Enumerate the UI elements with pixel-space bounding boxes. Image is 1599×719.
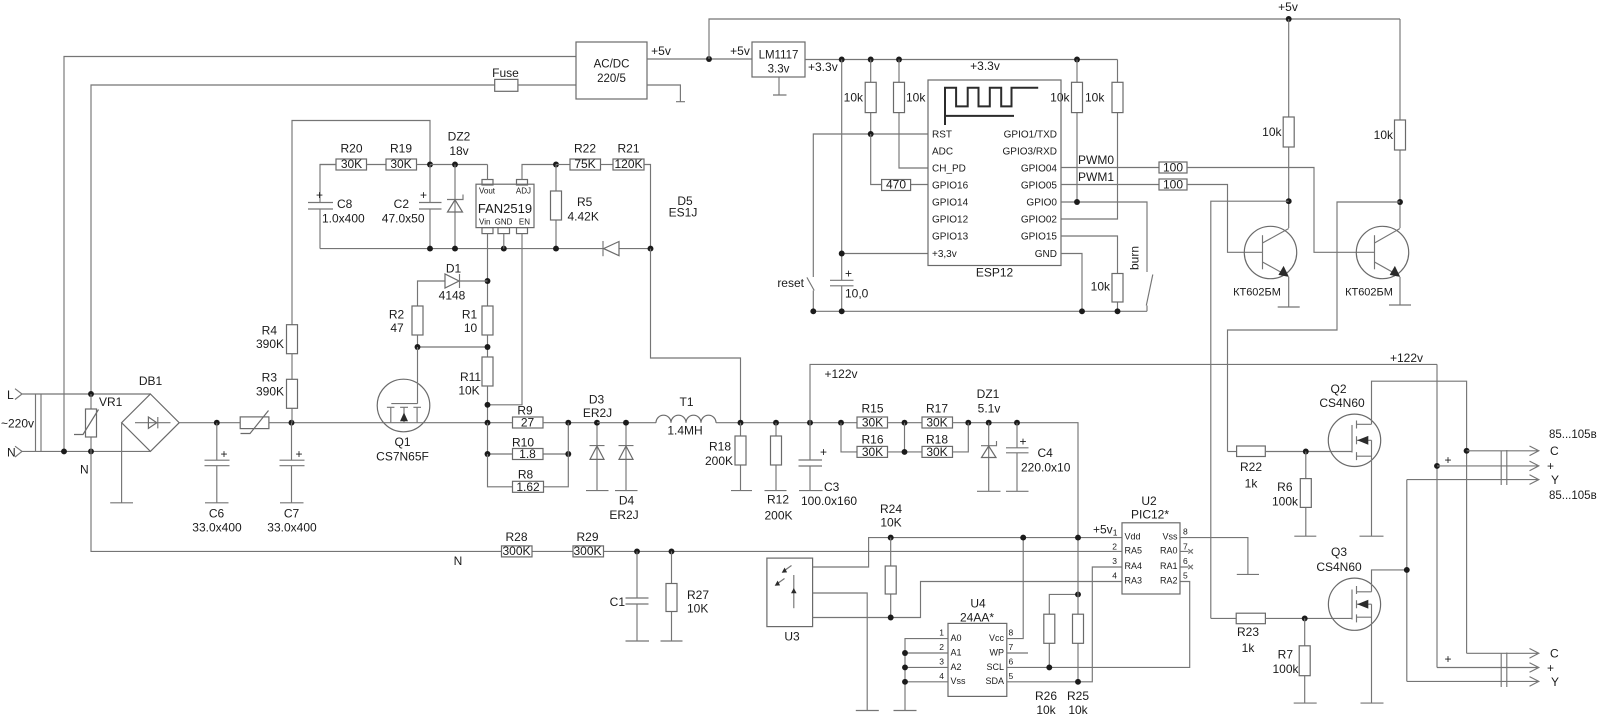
- node R18a: [738, 420, 744, 426]
- diode D5 ES1J: [602, 241, 604, 256]
- svg-text:R22: R22: [574, 142, 596, 156]
- diode D1 4148: [418, 274, 488, 306]
- wire N to bottom rail: [91, 451, 1122, 551]
- node C2 top: [427, 162, 433, 168]
- resistor 10k GPIO02 pullup: [1061, 60, 1118, 220]
- svg-text:100k: 100k: [1272, 662, 1299, 676]
- svg-text:10k: 10k: [1036, 703, 1056, 717]
- svg-text:R5: R5: [577, 195, 593, 209]
- node R2-R1 left: [415, 344, 421, 350]
- svg-text:Y: Y: [1551, 675, 1559, 689]
- svg-text:C6: C6: [209, 507, 225, 521]
- svg-text:200K: 200K: [764, 509, 792, 523]
- svg-text:1k: 1k: [1242, 641, 1256, 655]
- svg-text:75K: 75K: [574, 157, 595, 171]
- wire RST net: [813, 134, 928, 277]
- resistor R6 100k: [1294, 452, 1316, 537]
- svg-text:4: 4: [939, 671, 944, 681]
- node R7 top: [1302, 615, 1308, 621]
- resistor R29 300K: [573, 546, 604, 557]
- wire Vcc riser: [1007, 538, 1023, 639]
- fuse Fuse: [495, 79, 518, 91]
- resistor R1 10: [482, 306, 493, 335]
- svg-text:PWM1: PWM1: [1078, 170, 1114, 184]
- resistor R11 10K: [482, 357, 493, 386]
- svg-text:100.0x160: 100.0x160: [801, 494, 857, 508]
- svg-text:C4: C4: [1038, 446, 1054, 460]
- resistor R17 30K: [922, 417, 953, 428]
- svg-text:PIC12*: PIC12*: [1131, 508, 1169, 522]
- node R27: [669, 548, 675, 554]
- svg-text:+5v1: +5v1: [1093, 523, 1118, 538]
- svg-text:Y: Y: [1551, 473, 1559, 487]
- svg-text:30K: 30K: [926, 445, 947, 459]
- svg-text:C1: C1: [610, 595, 626, 609]
- zener DZ1 5.1v: [977, 423, 1001, 492]
- node DZ2 top: [452, 162, 458, 168]
- wire collector2 to R22: [1228, 202, 1401, 452]
- wire EN pin to R11 bottom: [488, 234, 523, 405]
- capacitor 10,0: [830, 280, 854, 286]
- transistor KT602BM right: [1356, 226, 1408, 278]
- svg-text:10k: 10k: [844, 91, 864, 105]
- svg-text:R28: R28: [505, 530, 527, 544]
- svg-text:R19: R19: [390, 142, 412, 156]
- svg-text:100: 100: [1163, 178, 1183, 192]
- svg-text:Vin: Vin: [479, 218, 490, 227]
- svg-text:1.8: 1.8: [519, 447, 536, 461]
- node R24 top: [888, 535, 894, 541]
- svg-text:4.42K: 4.42K: [568, 210, 599, 224]
- svg-text:Vss: Vss: [1162, 532, 1178, 542]
- node mid top: [902, 420, 908, 426]
- svg-text:3: 3: [1112, 556, 1117, 566]
- wire GPIO0 to burn: [1061, 202, 1147, 272]
- svg-text:L: L: [7, 388, 14, 402]
- svg-text:D1: D1: [446, 262, 462, 276]
- resistor R21 120K: [613, 159, 644, 170]
- ic U FAN2519: [476, 184, 534, 227]
- wire Q3 source to ground: [1361, 604, 1384, 703]
- resistor R16 30K: [841, 423, 857, 452]
- svg-text:+3,3v: +3,3v: [932, 249, 957, 260]
- connector top bars: [1501, 450, 1507, 485]
- svg-text:GPIO04: GPIO04: [1021, 164, 1058, 175]
- capacitor C4: [1006, 423, 1029, 492]
- svg-text:GPIO3/RXD: GPIO3/RXD: [1003, 147, 1057, 158]
- mosfet Q2 CS4N60: [1328, 414, 1380, 466]
- svg-text:R25: R25: [1067, 689, 1089, 703]
- svg-text:+: +: [845, 267, 852, 281]
- svg-text:EN: EN: [519, 218, 530, 227]
- node rail D5: [648, 246, 654, 252]
- svg-text:GPIO12: GPIO12: [932, 215, 969, 226]
- svg-text:30K: 30K: [862, 445, 883, 459]
- node R9 right: [565, 420, 571, 426]
- node collector2: [1397, 199, 1403, 205]
- svg-text:+5v: +5v: [1278, 0, 1298, 14]
- wire feedback loop top: [292, 121, 430, 325]
- node D1 cathode: [485, 278, 491, 284]
- resistor R3 390K: [287, 379, 298, 408]
- ground LM1117: [773, 77, 787, 95]
- converter AC/DC 220/5: [576, 42, 647, 99]
- node C7: [289, 420, 295, 426]
- wire fuse feed: [91, 85, 495, 394]
- wire WP stub: [1007, 652, 1028, 654]
- node rail GND pin: [501, 246, 507, 252]
- svg-text:FAN2519: FAN2519: [478, 201, 532, 216]
- svg-text:+5v: +5v: [651, 44, 671, 58]
- node Vss4: [902, 679, 908, 685]
- svg-text:30K: 30K: [390, 157, 411, 171]
- svg-text:1.62: 1.62: [516, 480, 540, 494]
- svg-text:10k: 10k: [1050, 91, 1070, 105]
- svg-text:3.3v: 3.3v: [768, 64, 790, 76]
- svg-text:R18: R18: [709, 440, 731, 454]
- wire R21 down to rail: [644, 165, 651, 249]
- node rail cap: [839, 308, 845, 314]
- node R15 branch: [838, 420, 844, 426]
- svg-text:8: 8: [1183, 527, 1188, 537]
- wire ADJ pin: [522, 165, 556, 180]
- svg-text:КТ602БМ: КТ602БМ: [1233, 287, 1281, 299]
- svg-text:100k: 100k: [1272, 495, 1299, 509]
- node rail R5: [553, 246, 559, 252]
- svg-text:ER2J: ER2J: [609, 508, 638, 522]
- svg-text:DZ1: DZ1: [977, 387, 1000, 401]
- zener DZ2 18v: [447, 165, 463, 249]
- fusible resistor: [240, 417, 269, 429]
- svg-text:AC/DC: AC/DC: [594, 59, 630, 71]
- resistor R28 300K: [502, 546, 533, 557]
- svg-text:18v: 18v: [449, 144, 468, 158]
- svg-text:10k: 10k: [1091, 280, 1111, 294]
- connector top plus line: [1437, 461, 1539, 471]
- wire R23 to Q3 gate: [1265, 617, 1352, 619]
- node rail C2: [427, 246, 433, 252]
- wire R22b to Q2 gate: [1265, 451, 1352, 453]
- svg-text:U3: U3: [784, 630, 800, 644]
- node R2-R1 right: [485, 344, 491, 350]
- wire SDA net: [1007, 567, 1122, 682]
- svg-text:1: 1: [939, 628, 944, 638]
- resistor R15 30K: [857, 417, 888, 428]
- node rail gnd: [1079, 308, 1085, 314]
- svg-text:RA4: RA4: [1125, 561, 1143, 571]
- svg-text:N: N: [454, 554, 463, 568]
- svg-text:390K: 390K: [256, 337, 284, 351]
- connector bottom C line: [1467, 649, 1539, 659]
- svg-text:RA0: RA0: [1160, 546, 1178, 556]
- resistor R8 1.62: [488, 423, 569, 487]
- resistor R5 4.42K: [555, 165, 557, 249]
- svg-text:CS4N60: CS4N60: [1316, 560, 1362, 574]
- svg-text:A1: A1: [951, 647, 962, 657]
- wire R19 to node: [417, 164, 431, 166]
- svg-text:220/5: 220/5: [597, 73, 626, 85]
- node 10k pullup3 top: [1074, 57, 1080, 63]
- svg-text:C8: C8: [337, 197, 353, 211]
- svg-text:ADJ: ADJ: [516, 187, 531, 196]
- svg-text:30K: 30K: [862, 416, 883, 430]
- node +5v junction: [706, 56, 712, 62]
- svg-text:+3.3v: +3.3v: [808, 60, 838, 74]
- node A2: [902, 664, 908, 670]
- svg-text:10K: 10K: [687, 602, 708, 616]
- wire GPIO04 PWM0: [1061, 167, 1159, 169]
- node A1: [902, 650, 908, 656]
- node R12: [773, 420, 779, 426]
- svg-text:33.0x400: 33.0x400: [192, 521, 242, 535]
- svg-text:D3: D3: [589, 393, 605, 407]
- node R11-EN: [485, 402, 491, 408]
- node C6: [214, 420, 220, 426]
- svg-text:+5v: +5v: [730, 44, 750, 58]
- resistor R25 10k: [1077, 538, 1079, 682]
- svg-text:+: +: [316, 188, 323, 202]
- resistor 10k CH_PD pullup: [899, 60, 928, 169]
- svg-text:Q2: Q2: [1330, 382, 1346, 396]
- wire C drop: [1466, 451, 1468, 654]
- svg-text:Q3: Q3: [1331, 545, 1347, 559]
- svg-text:+: +: [820, 445, 827, 459]
- svg-text:R21: R21: [617, 142, 639, 156]
- svg-text:47.0x50: 47.0x50: [382, 212, 425, 226]
- svg-text:10k: 10k: [906, 91, 926, 105]
- resistor R22 75K: [556, 164, 570, 166]
- node rail 10k: [1115, 308, 1121, 314]
- svg-text:R15: R15: [861, 402, 883, 416]
- svg-text:220.0x10: 220.0x10: [1021, 461, 1071, 475]
- diode D3 ER2J: [586, 423, 609, 491]
- svg-text:10k: 10k: [1262, 125, 1282, 139]
- svg-text:30K: 30K: [926, 416, 947, 430]
- svg-text:1k: 1k: [1245, 477, 1259, 491]
- svg-text:GPIO16: GPIO16: [932, 181, 969, 192]
- wire U3 top to +5v1: [813, 538, 1122, 567]
- wire GPIO05 PWM1: [1061, 184, 1159, 186]
- svg-text:C2: C2: [394, 197, 410, 211]
- node R24 bottom: [888, 615, 894, 621]
- wire R17 out: [953, 423, 1079, 538]
- node C1: [634, 548, 640, 554]
- svg-text:5.1v: 5.1v: [978, 402, 1001, 416]
- svg-text:T1: T1: [679, 395, 693, 409]
- svg-text:GPIO1/TXD: GPIO1/TXD: [1004, 130, 1057, 141]
- resistor R9 27: [513, 417, 544, 428]
- wire esp ground rail: [813, 310, 1147, 312]
- svg-text:R29: R29: [576, 530, 598, 544]
- svg-text:300K: 300K: [573, 544, 601, 558]
- svg-text:DZ2: DZ2: [448, 130, 471, 144]
- ground AC/DC: [647, 85, 685, 102]
- node D4: [623, 420, 629, 426]
- resistor 10k Q1col: [1288, 19, 1290, 228]
- wire +122v drop to plus lines: [1436, 364, 1438, 667]
- wire Vout pin: [487, 165, 489, 180]
- svg-text:SDA: SDA: [985, 676, 1004, 686]
- node N VR1: [88, 448, 94, 454]
- node R10 left: [485, 451, 491, 457]
- wire +5v riser to top rail: [709, 19, 1400, 59]
- ground DB1: [110, 423, 133, 503]
- svg-text:7: 7: [1009, 642, 1014, 652]
- node +3.3v riser: [839, 57, 845, 63]
- svg-text:C7: C7: [284, 507, 300, 521]
- svg-text:+3.3v: +3.3v: [970, 59, 1000, 73]
- wire D3-D4: [597, 422, 656, 424]
- svg-text:+: +: [1444, 453, 1451, 467]
- wire SCL net: [1007, 582, 1190, 668]
- wire R18b up: [953, 423, 969, 452]
- svg-text:2: 2: [1112, 542, 1117, 552]
- svg-text:R23: R23: [1237, 625, 1259, 639]
- node R5 top: [553, 162, 559, 168]
- svg-text:Vcc: Vcc: [989, 633, 1005, 643]
- svg-text:RA3: RA3: [1125, 576, 1143, 586]
- wire ESP GND: [1061, 254, 1082, 312]
- node DZ1: [986, 420, 992, 426]
- connector bars: [36, 394, 42, 451]
- resistor R12 200K: [765, 423, 787, 491]
- node C4: [1014, 420, 1020, 426]
- svg-text:200K: 200K: [705, 454, 733, 468]
- svg-text:+: +: [221, 447, 228, 461]
- wire T1 out: [716, 422, 857, 424]
- resistor R23 1k: [1211, 617, 1236, 619]
- resistor R19: [386, 159, 417, 170]
- resistor R24 10K: [890, 538, 892, 618]
- resistor R26 10k: [1049, 594, 1078, 667]
- wire bottom rail of FAN block: [320, 248, 651, 250]
- resistor 100 PWM0: [1159, 162, 1187, 173]
- svg-text:Vss: Vss: [951, 676, 967, 686]
- mosfet Q1 CS7N65F: [377, 379, 430, 432]
- node GPIO0 pullup: [1074, 199, 1080, 205]
- node L VR1: [88, 391, 94, 397]
- optocoupler U3: [767, 558, 813, 627]
- svg-text:10: 10: [464, 321, 478, 335]
- connector bottom plus line: [1437, 663, 1539, 673]
- wire +122v rail: [810, 364, 1437, 422]
- node C3: [807, 420, 813, 426]
- resistor R18a 200K: [731, 423, 752, 491]
- svg-text:ER2J: ER2J: [583, 406, 612, 420]
- svg-text:+: +: [1547, 459, 1554, 473]
- svg-text:2: 2: [939, 642, 944, 652]
- wire fuse to AC/DC: [518, 84, 576, 86]
- U3 led arrows: [785, 566, 792, 571]
- mosfet Q3 CS4N60: [1328, 578, 1380, 630]
- svg-text:1.4MH: 1.4MH: [667, 424, 702, 438]
- wire +3.3v rail: [805, 59, 1118, 61]
- svg-text:A2: A2: [951, 662, 962, 672]
- wire Q2 drain: [1372, 381, 1467, 451]
- svg-text:33.0x400: 33.0x400: [267, 521, 317, 535]
- capacitor C8: [308, 165, 336, 249]
- resistor R10 1.8: [488, 423, 569, 454]
- svg-text:R24: R24: [880, 502, 902, 516]
- node R26 top tie: [1075, 591, 1081, 597]
- svg-text:R27: R27: [687, 588, 709, 602]
- node R26 bottom: [1046, 664, 1052, 670]
- svg-text:RST: RST: [932, 130, 952, 141]
- resistor 470: [871, 134, 928, 185]
- node RST junction: [868, 131, 874, 137]
- svg-text:C: C: [1550, 647, 1559, 661]
- wire PWM0 to Q base2: [1187, 168, 1375, 253]
- switch burn: [1146, 275, 1153, 312]
- svg-text:390K: 390K: [256, 385, 284, 399]
- svg-text:RA2: RA2: [1160, 576, 1178, 586]
- capacitor C2: [419, 165, 442, 249]
- svg-text:+122v: +122v: [1390, 351, 1423, 365]
- capacitor C1: [626, 551, 650, 641]
- svg-text:R26: R26: [1035, 689, 1057, 703]
- wire R11 bottom to main: [487, 386, 489, 423]
- resistor R27 10K: [661, 551, 683, 641]
- node +5v branch1: [1286, 16, 1292, 22]
- svg-text:47: 47: [390, 321, 404, 335]
- wire collector1 to R23: [1211, 201, 1289, 618]
- svg-text:+122v: +122v: [824, 367, 857, 381]
- svg-text:N: N: [80, 463, 89, 477]
- svg-text:1.0x400: 1.0x400: [322, 212, 365, 226]
- svg-text:R1: R1: [462, 308, 478, 322]
- wire GND pin to rail: [503, 234, 505, 249]
- svg-text:10,0: 10,0: [845, 287, 869, 301]
- svg-text:D4: D4: [619, 494, 635, 508]
- node Y q3: [1404, 567, 1410, 573]
- svg-text:+: +: [1444, 652, 1451, 666]
- node rail reset: [810, 308, 816, 314]
- wire R2 bottom: [417, 335, 419, 347]
- svg-text:30K: 30K: [341, 157, 362, 171]
- svg-text:85...105в: 85...105в: [1549, 429, 1597, 441]
- wire D5 rail to T1 node: [651, 249, 741, 423]
- capacitor C7: [280, 423, 305, 503]
- node R10 right: [565, 451, 571, 457]
- node N left: [61, 448, 67, 454]
- svg-text:C3: C3: [824, 480, 840, 494]
- svg-text:GPIO05: GPIO05: [1021, 181, 1058, 192]
- resistor 100 PWM1: [1159, 179, 1187, 190]
- node C top: [1464, 448, 1470, 454]
- svg-text:300K: 300K: [502, 544, 530, 558]
- svg-text:+: +: [420, 188, 427, 202]
- wire main DC rail: [179, 422, 512, 424]
- svg-text:ADC: ADC: [932, 147, 953, 158]
- wire R15-R17: [888, 422, 923, 424]
- svg-text:10K: 10K: [880, 516, 901, 530]
- svg-text:10k: 10k: [1068, 703, 1088, 717]
- wire R9 out: [543, 422, 597, 424]
- svg-text:GPIO02: GPIO02: [1021, 215, 1058, 226]
- svg-text:6: 6: [1183, 556, 1188, 566]
- svg-text:5: 5: [1183, 571, 1188, 581]
- svg-text:RA5: RA5: [1125, 546, 1143, 556]
- svg-text:CS4N60: CS4N60: [1319, 396, 1365, 410]
- diode D4 ER2J: [615, 423, 638, 491]
- svg-text:LM1117: LM1117: [759, 50, 799, 62]
- svg-text:Fuse: Fuse: [492, 66, 519, 80]
- wire L feed to AC/DC: [64, 57, 576, 452]
- wire GPIO15 pulldown: [1061, 236, 1118, 311]
- connector bottom Y line: [1407, 677, 1539, 687]
- wire R1 bottom link: [418, 335, 488, 357]
- svg-text:R12: R12: [767, 493, 789, 507]
